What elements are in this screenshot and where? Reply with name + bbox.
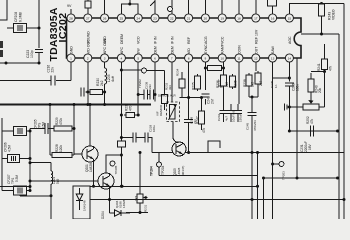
svg-text:D204: D204 <box>101 211 105 219</box>
svg-text:5: 5 <box>137 57 139 61</box>
svg-text:22n: 22n <box>51 67 55 73</box>
svg-text:2: 2 <box>87 57 89 61</box>
svg-text:TP204: TP204 <box>150 166 154 176</box>
IC202 reference label <box>48 7 69 61</box>
wire pin7 drop <box>171 62 173 102</box>
ceramic filter CF208 <box>14 11 27 32</box>
wire CF208 right to x39 <box>27 0 41 48</box>
wire y70 branch <box>121 69 164 72</box>
capacitor C243 electrolytic <box>227 104 236 122</box>
rail y178 <box>262 177 339 180</box>
svg-text:24: 24 <box>136 17 140 21</box>
svg-text:R238: R238 <box>243 79 247 87</box>
resistor R238 <box>243 73 255 97</box>
svg-text:470k: 470k <box>129 104 133 111</box>
component at top edge (cut off) <box>268 0 277 14</box>
wire top pin to edge <box>188 0 190 14</box>
wire x263.5 vertical <box>263 178 265 219</box>
svg-text:18: 18 <box>237 17 241 21</box>
resistor R243 <box>319 2 336 20</box>
wire R241 top lead <box>324 44 326 57</box>
wire left edge box <box>1 118 3 191</box>
wire y195.8 ground run <box>20 194 53 197</box>
wire pin2 drop <box>86 62 89 106</box>
capacitor C244 electrolytic <box>234 104 243 122</box>
wire left edge stub y186 <box>0 185 32 188</box>
wire R240 wiper <box>308 94 313 104</box>
capacitor C217 <box>81 88 88 97</box>
svg-text:4u7: 4u7 <box>225 116 229 121</box>
boxed diode D203 <box>73 186 90 219</box>
svg-text:47k: 47k <box>310 118 314 124</box>
wire CF208 left lead <box>7 27 14 29</box>
wire CF206 leads <box>2 157 32 160</box>
wire y131 <box>288 130 339 133</box>
test point TP204 <box>150 162 166 176</box>
svg-text:100u: 100u <box>152 125 156 132</box>
svg-text:AFC: AFC <box>120 47 124 54</box>
svg-text:14828: 14828 <box>89 163 93 172</box>
bus wire y104 left <box>0 103 151 105</box>
svg-text:C242: C242 <box>217 113 221 121</box>
svg-text:VIDEO: VIDEO <box>332 9 336 20</box>
wire pin4 net x121.7 <box>120 62 123 188</box>
component box on pin27 wire <box>85 1 91 8</box>
svg-text:22: 22 <box>170 17 174 21</box>
svg-text:1k5: 1k5 <box>251 82 255 87</box>
IC IC202 TDA8305A body <box>67 18 302 58</box>
svg-text:DEM: DEM <box>170 46 174 54</box>
wire CF205 leads <box>2 130 30 132</box>
wire pot right lead <box>319 106 325 108</box>
wire x50 vertical <box>49 103 52 155</box>
svg-text:14828: 14828 <box>122 199 126 208</box>
wire pin9 drop <box>204 62 206 90</box>
svg-text:25: 25 <box>120 17 124 21</box>
capacitor C228 C229 series pair <box>120 124 156 152</box>
svg-text:SW: SW <box>137 48 141 54</box>
svg-text:4: 4 <box>121 57 123 61</box>
svg-text:R247: R247 <box>196 116 200 124</box>
capacitor C240 <box>184 96 197 154</box>
resistor R232 <box>124 103 140 117</box>
wire pin8 drop <box>188 62 190 97</box>
svg-text:120k: 120k <box>59 145 63 152</box>
capacitor C242 electrolytic <box>217 104 229 122</box>
resistor R241 <box>317 57 333 72</box>
svg-text:OUT: OUT <box>254 46 258 54</box>
wire pin13 drop <box>273 62 291 79</box>
svg-text:9: 9 <box>205 57 207 61</box>
capacitor C231 <box>300 126 314 153</box>
wire top pin to edge <box>104 0 106 14</box>
wire pin15 to R243 <box>289 2 344 14</box>
svg-text:470k: 470k <box>59 118 63 125</box>
resistor R247 <box>196 96 207 133</box>
svg-text:20: 20 <box>204 17 208 21</box>
resistor R235 <box>230 74 238 89</box>
rail y175.7 <box>159 175 258 177</box>
svg-text:IF IN: IF IN <box>170 36 174 44</box>
transistor Q201 <box>82 103 98 172</box>
svg-text:RAMP: RAMP <box>221 43 225 54</box>
svg-text:R235: R235 <box>234 80 238 88</box>
capacitor C234 stub <box>285 104 304 111</box>
svg-text:22n: 22n <box>148 84 152 89</box>
wire x74 vertical <box>73 103 76 155</box>
svg-text:R231: R231 <box>144 204 148 212</box>
left edge component stubs <box>0 41 3 57</box>
svg-text:DEMOD: DEMOD <box>159 104 163 116</box>
inductor L205 <box>103 62 115 106</box>
svg-text:5u9: 5u9 <box>56 178 60 184</box>
svg-text:IF IN: IF IN <box>154 36 158 44</box>
svg-text:6: 6 <box>154 57 156 61</box>
svg-text:AFC OUT: AFC OUT <box>103 38 107 54</box>
resistor R234 <box>176 68 186 97</box>
wire top pin to edge <box>238 0 240 14</box>
svg-text:VCC: VCC <box>221 36 225 44</box>
svg-text:R234: R234 <box>176 68 180 76</box>
wire x297 vertical <box>296 58 299 180</box>
rail y153 <box>152 151 344 154</box>
bus wire y97.5 mid <box>180 97 204 99</box>
svg-text:15: 15 <box>288 17 292 21</box>
svg-text:10uF/16: 10uF/16 <box>232 111 236 122</box>
potentiometer R252 <box>303 104 319 124</box>
svg-text:5.5M: 5.5M <box>15 175 19 182</box>
wire R243 down to bus <box>321 18 323 34</box>
svg-text:2k2: 2k2 <box>100 80 104 86</box>
resistor R233 <box>161 71 172 111</box>
VIF demod box (dashed) <box>158 94 180 122</box>
wire top pin to edge <box>221 0 223 14</box>
arrow mark on pin 23 wire <box>150 1 155 6</box>
svg-text:(90147): (90147) <box>181 166 185 176</box>
wire y63 to left edge <box>0 62 41 65</box>
svg-text:2k7: 2k7 <box>259 81 263 86</box>
wire top pin to edge <box>204 0 206 14</box>
svg-text:28: 28 <box>69 17 73 21</box>
test point TP205 <box>110 161 118 174</box>
wire L204 feed <box>29 161 52 164</box>
wire pin28 stub <box>67 4 72 14</box>
svg-text:TP205: TP205 <box>114 165 118 174</box>
svg-text:REF: REF <box>187 37 191 44</box>
wire pin1 drop to C216 <box>70 62 72 80</box>
resistor R229 <box>52 117 74 131</box>
wire x344 vertical <box>343 4 346 220</box>
svg-text:DEM: DEM <box>154 46 158 54</box>
wire Q204 emitter <box>109 189 111 200</box>
ceramic filter CF205 <box>14 119 46 135</box>
capacitor C216 <box>0 65 71 86</box>
svg-text:VID: VID <box>187 48 191 54</box>
resistor R239 <box>255 62 263 97</box>
wire x30 vertical <box>29 129 32 191</box>
resistor R237 <box>218 62 230 104</box>
hook wire <box>173 122 179 143</box>
svg-text:R241: R241 <box>317 63 321 71</box>
diode D204 <box>101 200 130 220</box>
connector box top-left corner <box>0 0 7 20</box>
svg-text:AGC: AGC <box>288 36 292 44</box>
svg-text:ACG: ACG <box>204 36 208 44</box>
svg-text:C245: C245 <box>246 122 250 130</box>
svg-text:470n/63: 470n/63 <box>253 120 257 131</box>
svg-text:11: 11 <box>237 57 240 61</box>
wire vertical x339 <box>338 34 340 219</box>
wire top pin to edge <box>171 0 173 14</box>
wire x272.6 vertical <box>271 78 274 219</box>
svg-text:SYNC: SYNC <box>204 44 208 54</box>
svg-text:150uF: 150uF <box>239 113 243 122</box>
wire x324 down <box>324 72 326 108</box>
component box on x121.7 wire <box>118 141 126 147</box>
svg-text:VID OUT: VID OUT <box>86 39 90 54</box>
resistor R228 <box>50 144 74 157</box>
svg-text:2k2: 2k2 <box>135 196 139 201</box>
svg-text:COIN: COIN <box>238 45 242 54</box>
svg-text:9V: 9V <box>67 4 72 8</box>
capacitor C241 <box>201 94 214 105</box>
capacitor C236 <box>285 83 300 131</box>
ceramic filter CF207 <box>7 174 27 195</box>
wire CF207 leads <box>2 189 32 196</box>
IC202 top pin row (pins 28-15) <box>67 14 294 44</box>
transistor Q204 <box>98 173 126 208</box>
resistor R236 <box>204 66 225 89</box>
capacitor C245 <box>246 96 258 153</box>
wire top pin to edge <box>87 0 89 14</box>
svg-text:10: 10 <box>220 57 224 61</box>
svg-text:1k5: 1k5 <box>225 82 229 87</box>
shield bracket <box>208 141 220 152</box>
wire Q201 emitter <box>92 162 95 188</box>
rail y199.5 <box>90 198 344 201</box>
svg-text:27: 27 <box>86 17 90 21</box>
test point TP203 <box>273 162 286 180</box>
svg-text:1n: 1n <box>274 84 278 88</box>
svg-text:SAW: SAW <box>271 45 275 54</box>
transistor Q205 <box>172 142 186 176</box>
wire base Q201 <box>74 153 82 155</box>
resistor R230 <box>88 78 105 95</box>
svg-text:16V: 16V <box>308 143 312 150</box>
svg-text:17: 17 <box>254 17 258 21</box>
svg-text:7: 7 <box>171 57 173 61</box>
wire Q204 collector <box>106 155 121 173</box>
svg-text:1: 1 <box>70 57 72 61</box>
wire top pin to edge <box>255 0 257 14</box>
rail y212 <box>126 211 148 214</box>
svg-text:21: 21 <box>187 17 191 21</box>
wire bracket pins 25-24 <box>121 0 138 14</box>
svg-text:16: 16 <box>271 17 275 21</box>
IC202 bottom pin row (pins 1-14) <box>67 38 294 62</box>
svg-text:4.5M: 4.5M <box>8 145 12 152</box>
svg-text:19: 19 <box>220 17 224 21</box>
svg-text:R225: R225 <box>192 82 196 90</box>
capacitor C238 <box>147 90 155 100</box>
resistor R240 <box>308 70 326 94</box>
svg-text:12: 12 <box>254 57 258 61</box>
wire pin23 drop <box>154 62 157 101</box>
coil L206 VIF DEMOD <box>156 104 177 120</box>
wire pin11 drop <box>238 62 240 104</box>
svg-text:TP203: TP203 <box>282 171 286 180</box>
svg-text:47k: 47k <box>202 127 206 133</box>
wire x257.5 vertical <box>256 151 259 219</box>
svg-text:47k: 47k <box>329 65 333 71</box>
capacitor C235 labels <box>270 80 278 88</box>
capacitor C230 <box>30 123 52 134</box>
svg-text:26: 26 <box>103 17 107 21</box>
wire x159 drop <box>158 153 160 176</box>
wire Q204 base <box>29 180 99 183</box>
wire horizontal y34 right of IC <box>301 33 339 36</box>
svg-text:TDA8305A: TDA8305A <box>48 7 60 61</box>
resistor R231 <box>135 151 148 213</box>
resistor R225 <box>192 74 201 91</box>
svg-text:R237: R237 <box>218 79 222 87</box>
svg-text:CF208: CF208 <box>14 12 18 22</box>
wire pin5 drop <box>137 62 140 115</box>
rail y186 <box>90 185 259 188</box>
svg-text:TP204: TP204 <box>161 165 165 175</box>
svg-text:8: 8 <box>188 57 190 61</box>
wire top pin to edge <box>154 0 156 14</box>
svg-text:14: 14 <box>288 57 292 61</box>
svg-text:13: 13 <box>271 57 275 61</box>
ceramic filter CF206 <box>4 142 20 162</box>
svg-text:VCO: VCO <box>137 36 141 44</box>
svg-text:4uH: 4uH <box>111 75 115 82</box>
svg-text:GND: GND <box>70 46 74 54</box>
svg-text:3: 3 <box>104 57 106 61</box>
svg-text:DEEM: DEEM <box>120 34 124 44</box>
svg-text:DEMOD ALR: DEMOD ALR <box>158 94 177 98</box>
svg-text:6.0MB: 6.0MB <box>19 11 23 22</box>
svg-text:100p: 100p <box>30 50 34 58</box>
wire pin14 drop <box>288 62 290 81</box>
test point on top wire <box>168 7 173 12</box>
wire x252 vertical <box>251 153 253 220</box>
svg-text:REF 10V: REF 10V <box>254 29 258 44</box>
capacitor C223 <box>26 49 43 63</box>
svg-text:2n7: 2n7 <box>211 98 215 104</box>
svg-text:23: 23 <box>153 17 157 21</box>
test point TP202 <box>138 68 146 88</box>
inductor L204 <box>51 163 60 219</box>
capacitor C237 <box>138 81 152 99</box>
svg-text:20k: 20k <box>318 87 322 93</box>
svg-text:1N4148: 1N4148 <box>83 200 87 211</box>
